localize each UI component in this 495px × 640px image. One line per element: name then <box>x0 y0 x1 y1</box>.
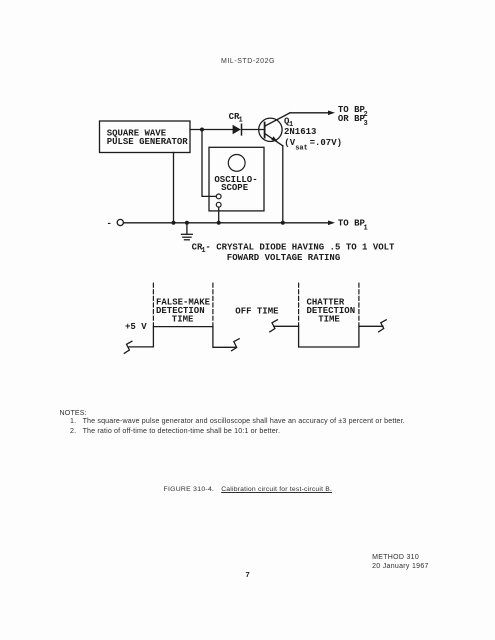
notes heading <box>60 409 87 417</box>
node: ground on bus <box>185 221 189 225</box>
footer METHOD 310 <box>372 554 419 561</box>
svg-text:OR BP: OR BP <box>338 114 366 124</box>
svg-text:FOWARD VOLTAGE RATING: FOWARD VOLTAGE RATING <box>227 253 340 263</box>
wire: collector to BP2/BP3 arrow <box>290 111 335 116</box>
wire: diode cathode to transistor base <box>242 129 265 131</box>
svg-text:SCOPE: SCOPE <box>221 183 249 193</box>
svg-text:PULSE GENERATOR: PULSE GENERATOR <box>107 137 189 147</box>
dashed line: chatter start <box>298 283 300 326</box>
svg-text:+5 V: +5 V <box>125 322 147 332</box>
node: generator output junction <box>200 128 204 132</box>
oscilloscope terminal 1 <box>216 194 221 199</box>
wire: generator output to diode anode <box>190 129 233 131</box>
svg-text:1: 1 <box>364 225 368 233</box>
diode CR1 <box>233 124 242 135</box>
svg-text:TIME: TIME <box>318 315 340 325</box>
note 1 <box>70 417 405 425</box>
label (Vsat=.07V) <box>284 138 342 152</box>
terminal: negative input <box>107 219 124 229</box>
header MIL-STD-202G <box>221 58 275 65</box>
oscilloscope box <box>209 147 264 211</box>
label Q1 <box>284 116 293 129</box>
svg-text:3: 3 <box>364 120 368 128</box>
footer date <box>372 563 429 570</box>
node: generator bottom on bus <box>172 221 176 225</box>
label CR1 <box>229 112 243 125</box>
svg-text:TO BP: TO BP <box>338 219 366 229</box>
ground <box>182 223 193 240</box>
oscilloscope terminal 2 <box>216 202 221 207</box>
arrow to BP1 <box>328 221 335 226</box>
break symbol: waveform right end <box>379 320 387 332</box>
svg-text:1: 1 <box>239 117 243 125</box>
wire: generator bottom to bus <box>173 153 175 223</box>
svg-text:OFF TIME: OFF TIME <box>235 306 279 316</box>
node: emitter on bus <box>281 221 285 225</box>
break symbol: waveform left end <box>124 341 132 353</box>
svg-text:2N1613: 2N1613 <box>284 127 316 137</box>
node: oscilloscope on bus <box>217 221 221 225</box>
svg-text:=.07V): =.07V) <box>310 138 342 148</box>
dashed line: false-make start <box>152 283 154 326</box>
note 2 <box>70 427 280 435</box>
break symbol: before chatter pulse <box>270 320 278 332</box>
wire: terminal 2 down to bus <box>218 207 220 223</box>
wire: junction down to oscilloscope terminal 1 <box>202 130 216 197</box>
figure caption <box>164 486 215 493</box>
figure caption underlined title <box>221 486 332 493</box>
svg-text:TIME: TIME <box>172 315 194 325</box>
wire: ground bus <box>124 222 330 224</box>
label CHATTER DETECTION TIME <box>307 298 356 325</box>
svg-text:-: - <box>107 219 112 229</box>
label TO BP2 OR BP3 <box>338 105 368 128</box>
wire: emitter down to bus <box>282 146 284 223</box>
break symbol: after false-make pulse <box>232 339 240 351</box>
transistor Q1 <box>259 113 290 146</box>
square wave pulse generator box <box>100 121 191 153</box>
svg-text:- CRYSTAL DIODE HAVING .5 TO 1: - CRYSTAL DIODE HAVING .5 TO 1 VOLT <box>205 243 395 253</box>
note: CR1 crystal diode description <box>192 243 395 263</box>
dashed line: chatter end <box>358 283 360 326</box>
svg-text:sat: sat <box>295 144 308 152</box>
page number <box>246 570 250 579</box>
label TO BP1 <box>338 219 368 233</box>
dashed line: false-make end <box>212 283 214 326</box>
label FALSE-MAKE DETECTION TIME <box>156 298 211 325</box>
svg-text:(V: (V <box>284 138 295 148</box>
waveform: false-make pulse <box>129 327 236 348</box>
waveform: chatter pulse <box>274 326 383 347</box>
